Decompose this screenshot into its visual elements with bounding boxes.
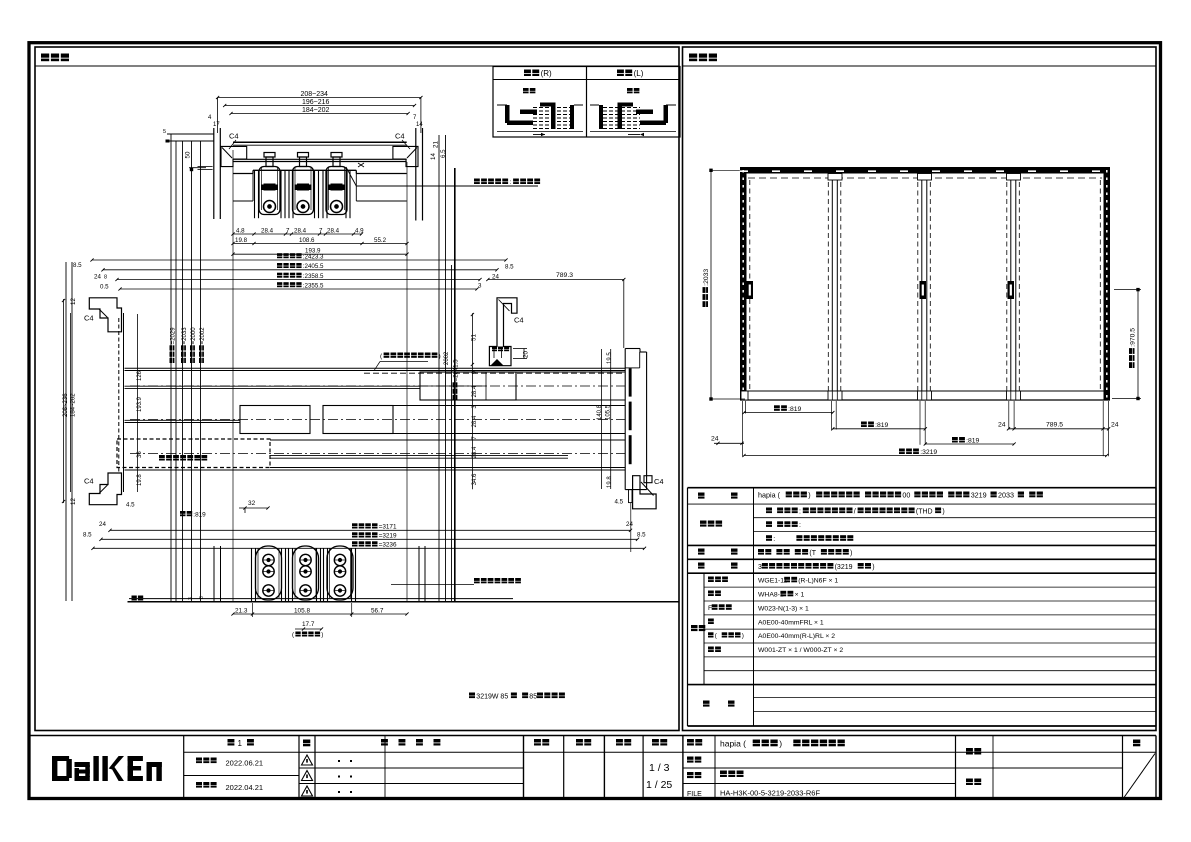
svg-text:17: 17 [213, 122, 220, 128]
svg-text:00: 00 [902, 491, 910, 500]
svg-text::2355.5: :2355.5 [303, 282, 324, 289]
svg-text:24: 24 [94, 274, 101, 281]
svg-text:): ) [742, 633, 744, 640]
svg-text:19.8: 19.8 [235, 237, 248, 244]
svg-text:28.4: 28.4 [327, 228, 340, 235]
svg-text:36: 36 [137, 451, 143, 458]
svg-text:184~202: 184~202 [71, 393, 77, 417]
svg-text::2358.5: :2358.5 [303, 273, 324, 280]
svg-text:=3219: =3219 [379, 533, 397, 540]
svg-text:1 / 3: 1 / 3 [649, 762, 670, 774]
svg-text:14: 14 [416, 122, 423, 128]
svg-text:24: 24 [711, 436, 719, 443]
svg-text::: : [509, 179, 511, 186]
svg-text::: : [799, 522, 801, 529]
svg-text:32: 32 [248, 500, 256, 507]
svg-text:C4: C4 [84, 314, 94, 323]
svg-text:HA-H3K-00-5-3219-2033-R6F: HA-H3K-00-5-3219-2033-R6F [720, 789, 820, 798]
svg-text:184~202: 184~202 [302, 107, 330, 114]
svg-text:F: F [708, 605, 712, 612]
svg-text:105.8: 105.8 [294, 608, 310, 615]
svg-text:24: 24 [99, 521, 106, 528]
svg-text:(R-L)N6F × 1: (R-L)N6F × 1 [798, 578, 838, 585]
svg-text:/: / [854, 508, 856, 515]
svg-text:24: 24 [1111, 422, 1119, 429]
svg-text:(T: (T [809, 550, 816, 557]
svg-text::3219: :3219 [920, 449, 937, 456]
svg-text:208~234: 208~234 [301, 91, 329, 98]
svg-text::2405.5: :2405.5 [303, 263, 324, 270]
svg-text:C4: C4 [395, 132, 405, 141]
svg-text:(THD: (THD [916, 508, 933, 515]
svg-text:12: 12 [70, 498, 77, 505]
svg-text:2002: 2002 [444, 351, 450, 365]
svg-text::819: :819 [966, 438, 979, 445]
svg-text:8: 8 [104, 275, 107, 281]
svg-text:19.8: 19.8 [137, 474, 143, 486]
svg-text:24: 24 [626, 521, 633, 528]
svg-text:12: 12 [70, 298, 77, 305]
svg-text:1: 1 [238, 739, 243, 748]
svg-text:3: 3 [758, 564, 762, 571]
svg-text:=3171: =3171 [379, 524, 397, 531]
svg-text:8.5: 8.5 [73, 262, 82, 269]
svg-text:=2041.5: =2041.5 [454, 359, 460, 382]
svg-text::819: :819 [875, 422, 888, 429]
svg-text:108.6: 108.6 [299, 237, 315, 244]
svg-text:): ) [439, 353, 441, 360]
svg-text::: : [773, 536, 775, 543]
svg-text:4.8: 4.8 [236, 228, 245, 235]
svg-text:17.7: 17.7 [302, 621, 315, 628]
svg-text:W023-N(1-3) × 1: W023-N(1-3) × 1 [758, 605, 809, 612]
svg-text:14: 14 [430, 153, 437, 160]
svg-text:105.5: 105.5 [606, 404, 612, 420]
svg-text:=2033: =2033 [182, 327, 188, 345]
svg-text:19.5: 19.5 [607, 352, 613, 364]
svg-text:50: 50 [185, 151, 192, 158]
svg-text:): ) [808, 491, 810, 500]
svg-text:3219W 85: 3219W 85 [476, 693, 508, 700]
svg-text::: : [799, 508, 801, 515]
svg-text:8.5: 8.5 [83, 532, 92, 539]
svg-text:21: 21 [433, 141, 440, 148]
svg-text:2022.06.21: 2022.06.21 [226, 759, 264, 768]
svg-text:126: 126 [137, 370, 143, 381]
svg-text:0.5: 0.5 [100, 284, 109, 291]
svg-text:6.5: 6.5 [440, 149, 447, 158]
svg-text:55.2: 55.2 [374, 237, 387, 244]
svg-text::2033: :2033 [703, 269, 710, 286]
svg-text:FILE: FILE [687, 791, 702, 798]
svg-text:208~236: 208~236 [63, 393, 69, 417]
svg-text:789.5: 789.5 [1046, 422, 1063, 429]
svg-text:W001-ZT × 1 / W000-ZT × 2: W001-ZT × 1 / W000-ZT × 2 [758, 647, 843, 654]
svg-text:19.8: 19.8 [607, 476, 613, 488]
svg-text:C4: C4 [514, 316, 524, 325]
svg-text:8.5: 8.5 [505, 264, 514, 271]
svg-text:3219: 3219 [971, 491, 987, 500]
svg-text:193.9: 193.9 [137, 396, 143, 412]
svg-text:28.4: 28.4 [472, 415, 478, 427]
svg-text:C4: C4 [229, 132, 239, 141]
svg-text:1 / 25: 1 / 25 [646, 779, 672, 791]
svg-text:): ) [779, 739, 782, 749]
svg-text:): ) [872, 564, 874, 571]
svg-text:=2002: =2002 [200, 327, 206, 345]
svg-text:28.4: 28.4 [261, 228, 274, 235]
svg-text:7: 7 [286, 228, 290, 235]
svg-text:196~216: 196~216 [302, 99, 330, 106]
svg-text:× 1: × 1 [795, 592, 805, 599]
svg-text:4.5: 4.5 [126, 502, 135, 509]
svg-text::2423.3: :2423.3 [303, 253, 324, 260]
svg-text:51: 51 [471, 334, 478, 341]
svg-text:C4: C4 [654, 477, 664, 486]
svg-text:C4: C4 [84, 477, 94, 486]
svg-text:4.9: 4.9 [355, 228, 364, 235]
svg-text:hapia (: hapia ( [720, 739, 746, 749]
svg-text:789.3: 789.3 [556, 272, 573, 279]
svg-text:WGE1-11: WGE1-11 [758, 578, 788, 585]
svg-text:A0E00-40mmFRL × 1: A0E00-40mmFRL × 1 [758, 619, 824, 626]
svg-text:(L): (L) [634, 69, 644, 78]
svg-text:): ) [942, 508, 944, 515]
svg-text:hapia (: hapia ( [758, 491, 781, 500]
svg-text:28.4: 28.4 [294, 228, 307, 235]
svg-text:34.6: 34.6 [472, 473, 478, 485]
svg-text:56.7: 56.7 [371, 608, 384, 615]
svg-text:8.5: 8.5 [637, 532, 646, 539]
svg-text:4.5: 4.5 [615, 499, 624, 506]
svg-text:85: 85 [529, 693, 537, 700]
svg-text:(3219: (3219 [835, 564, 853, 571]
svg-text:5: 5 [163, 129, 166, 135]
svg-text:3: 3 [478, 283, 482, 290]
svg-text:24: 24 [998, 422, 1006, 429]
svg-text:8: 8 [199, 596, 205, 599]
svg-text:(R): (R) [541, 69, 552, 78]
svg-text:21.3: 21.3 [235, 608, 248, 615]
svg-text::819: :819 [193, 511, 206, 518]
svg-text:): ) [850, 550, 852, 557]
svg-text:140.8: 140.8 [597, 404, 603, 420]
svg-text:=2000: =2000 [191, 327, 197, 345]
svg-text:): ) [321, 632, 323, 639]
svg-text:20: 20 [523, 351, 530, 358]
svg-text::819: :819 [788, 406, 801, 413]
svg-text:=2029: =2029 [171, 327, 177, 345]
svg-text::970.5: :970.5 [1130, 328, 1137, 347]
svg-text:7: 7 [319, 228, 323, 235]
svg-text:2022.04.21: 2022.04.21 [226, 783, 264, 792]
svg-text:3: 3 [188, 597, 194, 600]
svg-text:A0E00-40mm(R-L)RL × 2: A0E00-40mm(R-L)RL × 2 [758, 633, 835, 640]
svg-text:=3236: =3236 [379, 542, 397, 549]
svg-text:WHA8-1: WHA8-1 [758, 592, 784, 599]
svg-text:28.4: 28.4 [472, 446, 478, 458]
svg-text:2033: 2033 [998, 491, 1014, 500]
svg-text:28.4: 28.4 [472, 385, 478, 397]
